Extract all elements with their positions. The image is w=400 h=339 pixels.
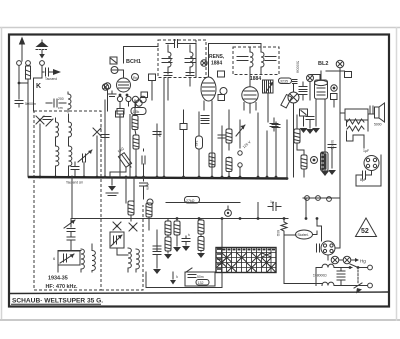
svg-text:1884: 1884	[211, 61, 222, 67]
svg-text:RENS,: RENS,	[209, 54, 225, 60]
svg-text:1884: 1884	[250, 76, 261, 82]
svg-text:BL2: BL2	[318, 61, 328, 67]
svg-text:50000m: 50000m	[296, 61, 300, 73]
svg-text:132: 132	[198, 281, 204, 285]
svg-text:4μm: 4μm	[146, 183, 150, 190]
svg-text:Skalenl.: Skalenl.	[298, 233, 309, 237]
svg-text:60Ω: 60Ω	[276, 230, 280, 237]
svg-text:345: 345	[194, 141, 198, 147]
svg-text:Tausend cm: Tausend cm	[66, 181, 84, 185]
svg-text:50μ: 50μ	[158, 131, 162, 137]
svg-text:1934-35: 1934-35	[48, 276, 68, 282]
svg-text:50m: 50m	[197, 275, 204, 279]
svg-text:1,5k: 1,5k	[133, 110, 140, 114]
svg-text:52: 52	[361, 228, 369, 235]
svg-text:5000: 5000	[374, 123, 382, 127]
svg-text:1μ: 1μ	[270, 200, 274, 204]
svg-text:K: K	[36, 83, 41, 90]
svg-text:3235: 3235	[280, 80, 288, 84]
svg-text:cm: cm	[58, 106, 63, 110]
svg-text:SCHAUB· WELTSUPER 35 G.: SCHAUB· WELTSUPER 35 G.	[12, 298, 103, 305]
svg-text:27kΩ: 27kΩ	[186, 199, 195, 203]
svg-text:BCH1: BCH1	[126, 59, 141, 65]
svg-text:HF: 470 kHz.: HF: 470 kHz.	[46, 284, 79, 290]
svg-text:Tausend: Tausend	[45, 77, 57, 81]
svg-text:1μF: 1μF	[363, 149, 369, 153]
svg-text:8μF: 8μF	[360, 178, 366, 182]
svg-text:Hg: Hg	[360, 259, 366, 264]
svg-text:200: 200	[58, 97, 64, 101]
svg-text:Σ≈8000Ω: Σ≈8000Ω	[313, 274, 327, 278]
svg-text:5000m: 5000m	[25, 102, 36, 106]
svg-text:Rg: Rg	[133, 76, 138, 80]
